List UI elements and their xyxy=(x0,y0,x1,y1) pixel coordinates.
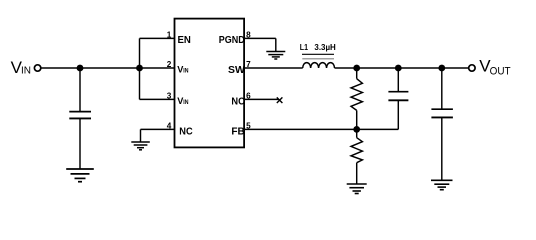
svg-text:L1: L1 xyxy=(300,42,308,52)
svg-text:SW: SW xyxy=(228,65,245,76)
wire pin7 SW to inductor xyxy=(244,67,303,69)
svg-text:IN: IN xyxy=(21,66,31,77)
pin labels U1 xyxy=(177,35,245,137)
ground input xyxy=(66,169,94,182)
resistor R1 feedback top xyxy=(351,68,362,129)
svg-text:3.3µH: 3.3µH xyxy=(314,42,335,52)
label VOUT xyxy=(479,56,511,77)
capacitor C3 output xyxy=(431,68,453,180)
wire SW rail to VOUT xyxy=(335,67,469,69)
ground pin4 xyxy=(131,142,150,150)
capacitor C1 input xyxy=(69,68,91,169)
label L1 3.3uH xyxy=(300,42,336,52)
svg-text:1: 1 xyxy=(167,30,172,39)
svg-text:FB: FB xyxy=(231,127,244,138)
no-connect X pin6 xyxy=(277,97,283,103)
ground R2 xyxy=(347,184,367,194)
resistor R2 feedback bottom xyxy=(351,129,362,184)
svg-text:IN: IN xyxy=(183,69,188,75)
ground PGND xyxy=(266,52,285,60)
capacitor C2 feedforward xyxy=(388,68,408,129)
terminal VIN xyxy=(34,65,40,71)
svg-text:4: 4 xyxy=(167,121,172,130)
label VIN xyxy=(11,58,31,77)
svg-text:2: 2 xyxy=(167,60,172,69)
node input cap junction xyxy=(77,65,84,72)
svg-text:PGND: PGND xyxy=(219,35,245,46)
inductor L1 xyxy=(302,54,335,68)
IC U1 regulator box xyxy=(175,19,245,148)
wire pin4 NC xyxy=(141,129,175,141)
node C3 top xyxy=(438,65,445,72)
svg-text:EN: EN xyxy=(178,35,191,46)
ground output xyxy=(431,180,453,189)
svg-text:IN: IN xyxy=(183,100,188,106)
node FB junction xyxy=(353,126,360,133)
node C2 top xyxy=(395,65,402,72)
wire pin6 NC xyxy=(244,98,279,100)
pin numbers U1 xyxy=(167,30,251,130)
node R1 top xyxy=(353,65,360,72)
wire pin1 EN xyxy=(140,37,175,39)
wire FB xyxy=(244,128,398,130)
terminal VOUT xyxy=(469,65,475,71)
node EN/VIN branch junction xyxy=(136,65,143,72)
wire EN/VIN branch vertical xyxy=(139,38,141,99)
svg-text:NC: NC xyxy=(231,96,244,107)
svg-text:OUT: OUT xyxy=(490,65,511,77)
wire pin8 PGND xyxy=(244,38,276,51)
wire pin3 VIN xyxy=(140,98,175,100)
svg-text:3: 3 xyxy=(167,91,172,100)
wire input rail xyxy=(41,67,174,69)
svg-text:NC: NC xyxy=(179,127,192,138)
